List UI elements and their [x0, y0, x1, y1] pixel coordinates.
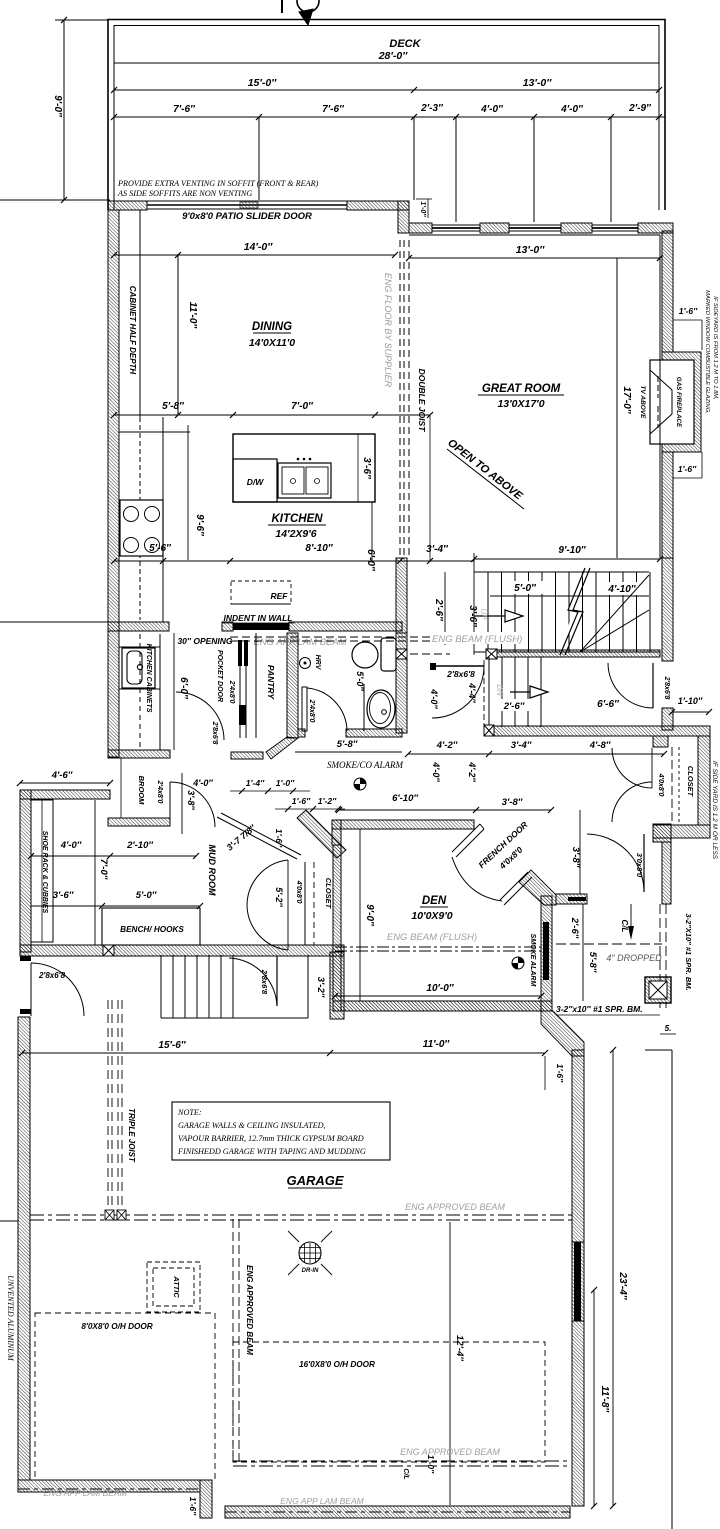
- kitchen bottom wall mid with indent sill: [222, 622, 233, 631]
- svg-text:ENG BEAM (FLUSH): ENG BEAM (FLUSH): [387, 932, 477, 943]
- svg-text:DR-IN: DR-IN: [302, 1268, 319, 1274]
- svg-text:7′-6″: 7′-6″: [322, 104, 345, 115]
- svg-text:13′-0″: 13′-0″: [523, 77, 553, 89]
- svg-text:GREAT ROOM: GREAT ROOM: [482, 383, 561, 395]
- svg-text:4′-4″: 4′-4″: [467, 682, 477, 703]
- 30 inch opening: [168, 622, 170, 631]
- svg-text:15′-0″: 15′-0″: [248, 77, 278, 89]
- window 2 great room: [509, 224, 561, 226]
- den top dim line: [339, 809, 551, 811]
- powder door arc: [307, 688, 347, 731]
- svg-text:4′-2″: 4′-2″: [467, 761, 477, 782]
- eng beam flush label: [432, 632, 525, 644]
- svg-text:ENG APP LAM BEAM: ENG APP LAM BEAM: [280, 1496, 364, 1506]
- svg-text:1′-0″: 1′-0″: [419, 201, 426, 217]
- great room east inner line: [659, 235, 661, 558]
- svg-text:2′4x8′0: 2′4x8′0: [228, 680, 235, 704]
- stair right wall piece: [330, 952, 344, 1019]
- svg-text:1′-0″: 1′-0″: [276, 778, 295, 788]
- svg-text:3′-6″: 3′-6″: [467, 605, 478, 628]
- den right wall upper door 3'0x8'0: [643, 834, 645, 892]
- svg-text:BROOM: BROOM: [137, 776, 146, 806]
- smoke alarm den: [512, 957, 524, 969]
- svg-text:2′-9″: 2′-9″: [628, 103, 652, 114]
- HRV circle: [300, 658, 311, 669]
- garage window right: [574, 1242, 581, 1321]
- broom closet bottom wall: [108, 818, 170, 826]
- beam dashes through door opening: [410, 653, 450, 655]
- garage beam dashed line: [30, 1214, 572, 1216]
- svg-text:1′-10″: 1′-10″: [678, 696, 703, 706]
- stair/powder divider wall: [396, 558, 407, 633]
- svg-text:2′8x6′8: 2′8x6′8: [211, 721, 218, 745]
- UP arrow: [474, 615, 505, 617]
- hall door arc: [176, 692, 224, 740]
- svg-text:12′-4″: 12′-4″: [454, 1335, 465, 1361]
- beam wall below stairs: [487, 650, 660, 657]
- basement door leaf: [276, 956, 278, 1006]
- wall top great room with windows: [409, 223, 432, 233]
- den top wall: [332, 820, 474, 829]
- svg-text:2′-6″: 2′-6″: [433, 598, 444, 622]
- den NE wall piece with sill: [556, 894, 587, 904]
- kitchen NW counter line: [119, 431, 190, 433]
- svg-text:3′-4″: 3′-4″: [511, 740, 532, 751]
- svg-text:3′-6″: 3′-6″: [53, 890, 74, 901]
- svg-text:DECK: DECK: [389, 38, 421, 50]
- svg-text:1′-6″: 1′-6″: [555, 1064, 565, 1083]
- smoke alarm symbol: [354, 778, 366, 790]
- svg-text:5′-8″: 5′-8″: [587, 952, 598, 973]
- left wall extension line: [0, 199, 110, 201]
- svg-text:8′-10″: 8′-10″: [305, 543, 333, 554]
- svg-text:GARAGE WALLS & CEILING INSULAT: GARAGE WALLS & CEILING INSULATED,: [178, 1121, 326, 1130]
- beam X posts on joist: [105, 1210, 114, 1220]
- fridge REF: [231, 581, 291, 604]
- svg-text:2′4x8′0: 2′4x8′0: [156, 780, 163, 804]
- pantry bottom wall: [231, 752, 263, 759]
- svg-text:HRV: HRV: [314, 655, 321, 671]
- svg-text:ENG APP LAM BEAM: ENG APP LAM BEAM: [43, 1488, 127, 1498]
- svg-text:MARKED WINDOW COMBUSTIBLE GLAZ: MARKED WINDOW COMBUSTIBLE GLAZING,: [704, 290, 710, 414]
- stair dim 9'-10: [474, 558, 660, 560]
- stairs up treads: [487, 572, 489, 652]
- kitchen bottom wall extension line: [0, 621, 108, 623]
- wall right of door: [653, 824, 671, 842]
- deck outer border: [108, 20, 665, 211]
- svg-text:3′-8″: 3′-8″: [570, 847, 581, 868]
- french door leaf A: [452, 824, 480, 852]
- side door jambs: [20, 956, 31, 961]
- svg-text:4′-0″: 4′-0″: [60, 840, 82, 851]
- svg-text:6′-0″: 6′-0″: [365, 549, 376, 572]
- hall dim line: [408, 753, 664, 755]
- dishwasher D/W: [233, 459, 277, 502]
- svg-text:DN: DN: [495, 684, 504, 696]
- svg-text:4′-0″: 4′-0″: [480, 104, 504, 115]
- svg-text:15′-6″: 15′-6″: [158, 1040, 186, 1051]
- den window sill east: [543, 922, 549, 980]
- svg-text:10′-0″: 10′-0″: [426, 983, 454, 994]
- svg-text:9′-0″: 9′-0″: [364, 904, 375, 927]
- svg-text:10′0X9′0: 10′0X9′0: [411, 910, 452, 922]
- svg-text:DEN: DEN: [422, 895, 447, 907]
- kitchen bottom wall left: [108, 622, 169, 631]
- den bottom wall: [333, 1001, 552, 1011]
- window 1 great room: [432, 224, 480, 226]
- svg-text:AS SIDE SOFFITS ARE NON VENTIN: AS SIDE SOFFITS ARE NON VENTING: [117, 189, 252, 198]
- stairs break line: [560, 568, 585, 655]
- svg-text:MUD ROOM: MUD ROOM: [207, 845, 217, 896]
- svg-text:11′-0″: 11′-0″: [423, 1039, 451, 1050]
- svg-text:4″ DROPPED: 4″ DROPPED: [606, 953, 662, 963]
- kitchen left counter line: [162, 417, 164, 622]
- stairs up landing line: [474, 651, 660, 653]
- deck edge line: [114, 62, 659, 64]
- svg-text:IF SIDE YARD IS 1.2 M OR LESS: IF SIDE YARD IS 1.2 M OR LESS: [711, 761, 718, 860]
- svg-text:9′-6″: 9′-6″: [194, 514, 205, 537]
- svg-text:CLOSET: CLOSET: [324, 878, 333, 910]
- svg-text:PANTRY: PANTRY: [266, 665, 276, 700]
- svg-text:4′0x8′0: 4′0x8′0: [657, 773, 664, 797]
- broom door arc: [170, 782, 215, 827]
- right exterior wall upper: [662, 231, 673, 352]
- garage left wall: [18, 1017, 30, 1480]
- DN arrow: [510, 691, 530, 693]
- drain symbol: [299, 1242, 321, 1264]
- powder door leaf: [302, 687, 307, 731]
- svg-text:9′0x8′0 PATIO SLIDER DOOR: 9′0x8′0 PATIO SLIDER DOOR: [182, 211, 312, 222]
- svg-text:14′0X11′0: 14′0X11′0: [249, 337, 295, 349]
- svg-text:3-2″x10″ #1 SPR. BM.: 3-2″x10″ #1 SPR. BM.: [556, 1004, 643, 1014]
- svg-text:C/L: C/L: [402, 1468, 409, 1479]
- powder sink: [367, 690, 395, 728]
- svg-text:4′-2″: 4′-2″: [436, 740, 458, 751]
- double joist dashed lines: [399, 240, 401, 555]
- beam post X right: [486, 649, 497, 659]
- closet rod dashed: [313, 862, 315, 945]
- den west wall: [333, 845, 341, 1011]
- eng app lam beam dashed: [230, 636, 455, 638]
- broom closet interior: [120, 758, 122, 818]
- garage front wall: [225, 1506, 570, 1518]
- svg-text:2′-6″: 2′-6″: [503, 701, 525, 712]
- cabinet half depth line: [139, 210, 141, 417]
- svg-text:1′-4″: 1′-4″: [246, 778, 265, 788]
- kitchen dim line upper: [114, 414, 430, 416]
- svg-text:9′-0″: 9′-0″: [52, 95, 63, 118]
- mudroom bottom wall: [20, 945, 344, 956]
- svg-text:4′0x8′0: 4′0x8′0: [295, 880, 302, 904]
- kitchen island counter: [233, 434, 375, 502]
- powder vanity edge: [363, 684, 365, 731]
- garage right wall diagonal: [541, 1011, 584, 1056]
- svg-text:4′-0″: 4′-0″: [429, 688, 439, 709]
- svg-text:30″ OPENING: 30″ OPENING: [177, 636, 232, 646]
- right closet bottom wall: [653, 825, 710, 838]
- svg-text:6′-10″: 6′-10″: [392, 793, 418, 804]
- property line right: [671, 1050, 673, 1529]
- left exterior wall upper: [108, 210, 119, 757]
- svg-text:PROVIDE EXTRA VENTING IN SOFFI: PROVIDE EXTRA VENTING IN SOFFIT (FRONT &…: [117, 179, 319, 188]
- closet west line: [304, 862, 306, 945]
- svg-text:2′8x6′8: 2′8x6′8: [446, 669, 475, 679]
- svg-text:UNVENTED ALUMINUM: UNVENTED ALUMINUM: [6, 1275, 15, 1362]
- right closet door arcs: [612, 748, 652, 788]
- svg-text:BENCH/ HOOKS: BENCH/ HOOKS: [120, 925, 184, 934]
- right exterior wall mid: [662, 452, 673, 558]
- svg-text:3′0x8′0: 3′0x8′0: [635, 853, 644, 878]
- svg-text:ATTIC: ATTIC: [172, 1275, 181, 1298]
- svg-text:4′-8″: 4′-8″: [589, 740, 611, 751]
- den east wall: [541, 896, 552, 1011]
- pantry/powder divider wall: [287, 633, 298, 738]
- kitchen cabinets lower: [159, 634, 161, 750]
- shoe rack: [31, 800, 53, 942]
- stairs up enclosure: [474, 571, 649, 573]
- svg-text:28′-0″: 28′-0″: [378, 50, 409, 62]
- garage top dim line: [22, 1052, 545, 1054]
- 8x8 OH door dashed box: [35, 1313, 215, 1480]
- dining dim 14'-0: [114, 254, 395, 256]
- upper stair dim ext: [429, 415, 431, 561]
- svg-text:GARAGE: GARAGE: [286, 1173, 343, 1188]
- powder bottom wall: [298, 729, 305, 737]
- north arrow symbol (partial): [297, 0, 319, 12]
- eng approved beam vertical dashed: [232, 1219, 234, 1466]
- svg-text:23′-4″: 23′-4″: [617, 1271, 628, 1300]
- svg-text:14′-0″: 14′-0″: [244, 241, 274, 253]
- svg-text:UP: UP: [479, 608, 488, 620]
- mudroom left wall: [20, 790, 31, 952]
- svg-text:INDENT IN WALL: INDENT IN WALL: [224, 613, 293, 623]
- svg-text:16′0X8′0 O/H DOOR: 16′0X8′0 O/H DOOR: [299, 1360, 375, 1369]
- svg-text:DOUBLE JOIST: DOUBLE JOIST: [417, 369, 427, 433]
- mudroom closet doors: [247, 860, 288, 905]
- right closet rod dashed: [671, 747, 673, 825]
- svg-text:ENG APPROVED BEAM: ENG APPROVED BEAM: [405, 1202, 505, 1212]
- svg-text:TRIPLE JOIST: TRIPLE JOIST: [127, 1108, 136, 1163]
- window 3 great room: [592, 224, 638, 226]
- gas fireplace surround: [662, 352, 701, 452]
- svg-text:D/W: D/W: [247, 477, 265, 487]
- stair upper dim line: [490, 595, 649, 597]
- svg-text:3′-8″: 3′-8″: [186, 790, 196, 810]
- cooktop: [120, 500, 163, 556]
- deck dim line 15'-0 / 13'-0: [114, 89, 659, 91]
- svg-text:TV ABOVE: TV ABOVE: [639, 386, 646, 420]
- stairs dn dashed wall: [483, 660, 485, 727]
- stair dim 4'-10: [598, 582, 646, 595]
- svg-text:1′-6″: 1′-6″: [678, 464, 697, 474]
- kitchen dim line lower: [114, 560, 430, 562]
- wall top dining (right part): [347, 201, 409, 210]
- svg-text:5′-8″: 5′-8″: [162, 401, 185, 412]
- great room inner wall line: [409, 234, 660, 236]
- svg-text:3′-8″: 3′-8″: [502, 797, 523, 808]
- great room dim 13'-0: [409, 257, 660, 259]
- svg-text:2′-3″: 2′-3″: [420, 103, 444, 114]
- triple joist dashed: [107, 1000, 109, 1219]
- stairs winder lines: [580, 575, 649, 652]
- basement door arc: [229, 958, 277, 1006]
- pantry diagonal wall: [266, 737, 298, 759]
- svg-text:2′-10″: 2′-10″: [126, 840, 153, 851]
- hall bottom wall: [494, 726, 710, 736]
- svg-text:SMOKE ALARM: SMOKE ALARM: [529, 934, 536, 987]
- svg-text:2′4x8′0: 2′4x8′0: [308, 699, 315, 723]
- stair door leaf: [432, 665, 484, 667]
- deck dim line 7'-6 segments: [114, 116, 665, 118]
- right closet east wall: [698, 736, 710, 825]
- svg-text:ENG APPROVED BEAM: ENG APPROVED BEAM: [400, 1447, 500, 1457]
- pantry wall: [255, 633, 257, 738]
- toilet: [381, 638, 396, 671]
- den/garage connection wall: [344, 1001, 552, 1011]
- svg-text:5′-0″: 5′-0″: [136, 890, 157, 901]
- svg-text:ENG BEAM (FLUSH): ENG BEAM (FLUSH): [432, 634, 522, 645]
- beam post X mudroom: [103, 945, 114, 956]
- svg-text:4′-0″: 4′-0″: [431, 761, 441, 782]
- svg-text:13′-0″: 13′-0″: [516, 244, 546, 256]
- dim 1'-6 below fireplace: [673, 477, 702, 479]
- broom closet top wall: [108, 750, 170, 758]
- svg-text:13′0X17′0: 13′0X17′0: [497, 398, 544, 410]
- svg-text:6′-0″: 6′-0″: [178, 677, 189, 700]
- svg-text:ENG APP LAM BEAM: ENG APP LAM BEAM: [253, 637, 346, 648]
- svg-text:4′-6″: 4′-6″: [51, 770, 73, 781]
- beam post hatched right: [645, 977, 671, 1003]
- svg-text:7′-6″: 7′-6″: [173, 104, 196, 115]
- svg-text:FINISHEDD GARAGE WITH TAPING A: FINISHEDD GARAGE WITH TAPING AND MUDDING: [177, 1147, 366, 1156]
- svg-text:CABINET HALF DEPTH: CABINET HALF DEPTH: [128, 286, 137, 375]
- bench / hooks box: [102, 908, 200, 945]
- stair dim 5'-0: [505, 581, 545, 594]
- svg-text:3′-2″: 3′-2″: [315, 977, 326, 998]
- svg-text:IF SIDEYARD IS FROM 1.2 M TO 1: IF SIDEYARD IS FROM 1.2 M TO 1.8M,: [712, 296, 718, 400]
- svg-text:SHOE RACK & CUBBIES: SHOE RACK & CUBBIES: [41, 831, 48, 914]
- basement stairs treads: [160, 955, 162, 1018]
- dropped ceiling dashed: [556, 943, 662, 945]
- dim 2'-6 dn: [497, 699, 533, 711]
- svg-text:CLOSET: CLOSET: [686, 766, 695, 798]
- garage left bottom wall: [18, 1480, 200, 1492]
- svg-text:KITCHEN CABINETS: KITCHEN CABINETS: [145, 644, 152, 713]
- deck left dim 9'-0: [63, 20, 65, 200]
- diagonal wall hall/closet: [297, 810, 346, 858]
- svg-text:VAPOUR BARRIER, 12.7mm THICK: VAPOUR BARRIER, 12.7mm THICK GYPSUM BOAR…: [178, 1134, 364, 1143]
- svg-text:7′-0″: 7′-0″: [98, 859, 109, 880]
- svg-text:5′-8″: 5′-8″: [337, 739, 358, 750]
- hall east wall with door: [662, 558, 673, 661]
- svg-text:2′8x6′8: 2′8x6′8: [663, 676, 670, 700]
- svg-text:7′-0″: 7′-0″: [291, 401, 314, 412]
- right wall jamb below east door: [662, 708, 673, 730]
- gas fireplace unit: [650, 360, 694, 444]
- mudroom top wall: [20, 790, 110, 799]
- svg-text:KITCHEN: KITCHEN: [271, 513, 323, 525]
- den dim 9'-0 vertical: [359, 829, 361, 1001]
- wall top dining (left jamb): [108, 201, 147, 210]
- side door arc: [31, 963, 84, 1016]
- garage right wall: [572, 1050, 584, 1506]
- svg-text:POCKET DOOR: POCKET DOOR: [216, 650, 223, 702]
- beam post X left: [396, 649, 407, 659]
- svg-text:4′-0″: 4′-0″: [560, 104, 584, 115]
- svg-text:1′-6″: 1′-6″: [292, 796, 311, 806]
- svg-text:1′-0″: 1′-0″: [426, 1455, 436, 1474]
- hall east door 2'8x6'8: [652, 663, 654, 708]
- svg-text:5.: 5.: [665, 1024, 672, 1033]
- french door arc A: [452, 857, 502, 901]
- svg-text:6′-6″: 6′-6″: [597, 699, 620, 710]
- pocket door panel: [238, 640, 242, 666]
- right closet top lip: [653, 736, 668, 747]
- svg-text:1′-6″: 1′-6″: [188, 1497, 198, 1516]
- deck window center extension lines: [258, 117, 260, 200]
- svg-text:REF: REF: [271, 591, 289, 601]
- kitchen dim 9'-6 vertical: [187, 425, 189, 560]
- svg-text:17′-0″: 17′-0″: [621, 386, 632, 414]
- svg-text:5′-6″: 5′-6″: [149, 543, 172, 554]
- dim 1'-0 jog: [416, 198, 432, 200]
- kitchen double sink: [278, 463, 331, 498]
- kitchen bottom wall right: [289, 622, 402, 631]
- svg-text:11′-8″: 11′-8″: [599, 1386, 610, 1414]
- svg-text:C/L: C/L: [620, 920, 629, 933]
- dim 6'-0 vertical hall: [173, 633, 175, 750]
- 16x8 OH door dashed box: [233, 1342, 545, 1462]
- svg-text:2′8x6′8: 2′8x6′8: [260, 969, 269, 995]
- basement stairs bottom: [161, 1017, 308, 1019]
- svg-text:ENG FLOOR BY SUPPLIER: ENG FLOOR BY SUPPLIER: [383, 273, 393, 388]
- svg-text:1′-2″: 1′-2″: [318, 796, 337, 806]
- svg-text:8′0X8′0 O/H DOOR: 8′0X8′0 O/H DOOR: [81, 1322, 152, 1331]
- svg-text:3′-6″: 3′-6″: [361, 457, 372, 480]
- svg-text:DINING: DINING: [252, 321, 292, 333]
- attic hatch box: [147, 1262, 200, 1312]
- stairs dn treads: [488, 657, 490, 727]
- svg-text:SMOKE/CO ALARM: SMOKE/CO ALARM: [327, 760, 404, 770]
- french door leaf B: [500, 872, 528, 900]
- svg-text:3-2″X10″ #1 SPR. BM.: 3-2″X10″ #1 SPR. BM.: [684, 913, 693, 990]
- svg-text:11′-0″: 11′-0″: [187, 302, 198, 330]
- svg-text:5′-2″: 5′-2″: [274, 887, 284, 907]
- svg-text:5′-0″: 5′-0″: [514, 583, 537, 594]
- dining dim 11'-0 vertical: [177, 255, 179, 415]
- diagonal boundary mudroom/hall: [217, 817, 297, 859]
- svg-text:14′2X9′6: 14′2X9′6: [275, 528, 316, 540]
- svg-text:1′-6″: 1′-6″: [679, 306, 698, 316]
- dim 1'-6 above fireplace: [673, 319, 702, 321]
- svg-text:1′-6″: 1′-6″: [274, 829, 284, 848]
- patio slider door sill: [147, 200, 347, 202]
- den NE diagonal wall: [519, 870, 556, 905]
- deck inner border: [114, 26, 659, 211]
- svg-text:4′-0″: 4′-0″: [192, 778, 213, 788]
- garage beam dashed bottom: [233, 1460, 570, 1462]
- great room dim 17'-0 vertical: [616, 258, 618, 558]
- stair door arc: [432, 666, 484, 718]
- svg-text:NOTE:: NOTE:: [177, 1108, 202, 1117]
- wall jog connector: [398, 201, 409, 233]
- note box: [172, 1102, 390, 1160]
- svg-text:9′-10″: 9′-10″: [558, 545, 586, 556]
- svg-text:2′-6″: 2′-6″: [569, 917, 580, 939]
- beam post X hall bottom: [484, 725, 494, 736]
- kitchen sink fixture: [122, 648, 155, 688]
- svg-text:GAS FIREPLACE: GAS FIREPLACE: [675, 377, 682, 428]
